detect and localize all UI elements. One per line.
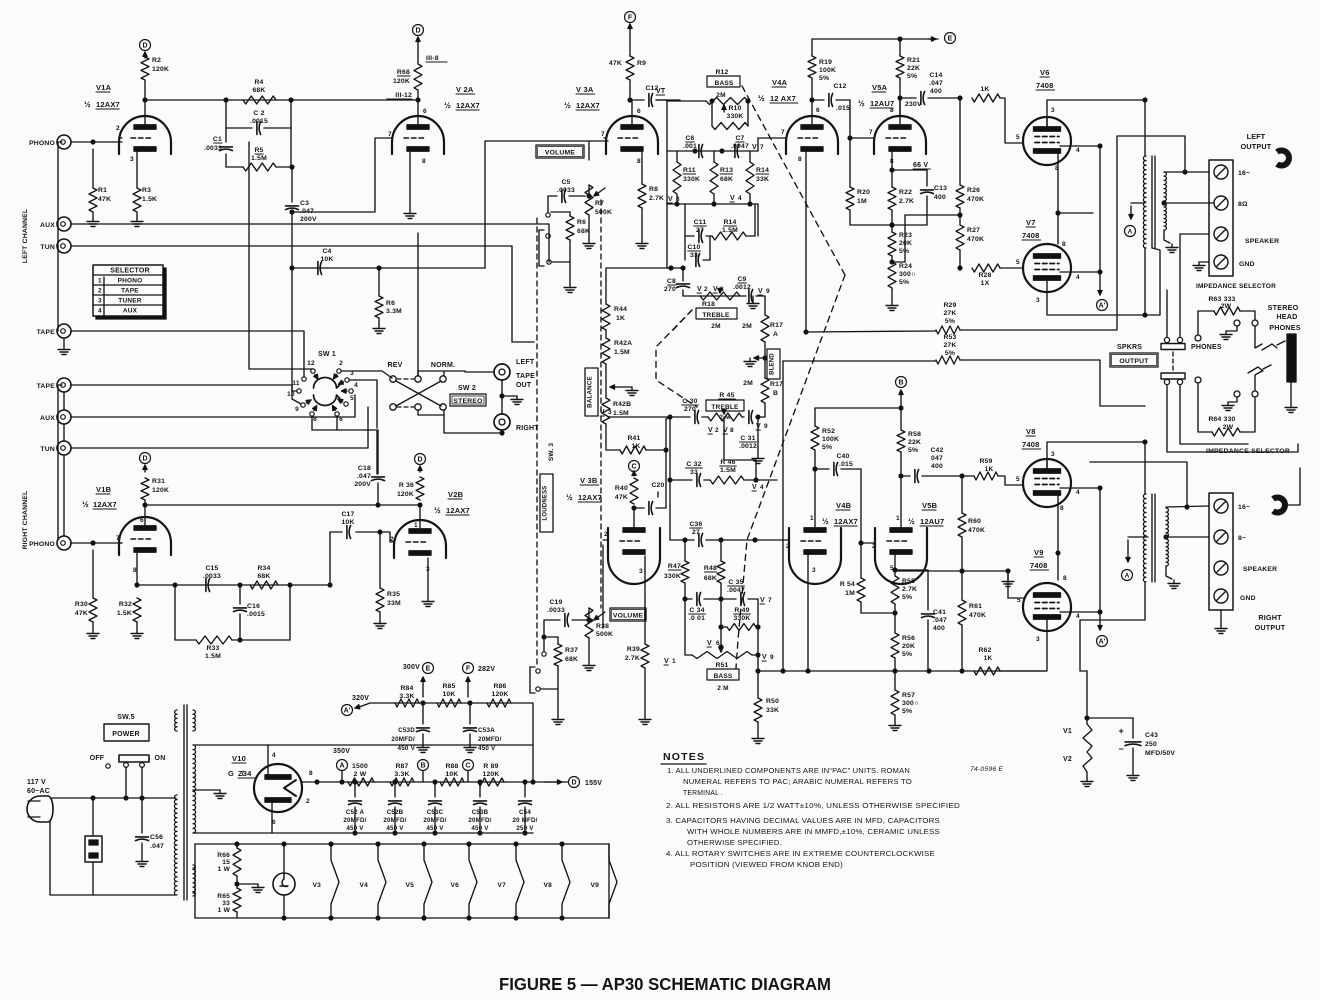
wire tape-left to SW1 c11 [71, 331, 304, 377]
wire V4A cathode [805, 151, 807, 332]
svg-text:R28: R28 [978, 272, 991, 279]
svg-text:4: 4 [98, 308, 102, 315]
wire tape-aux-tun right [63, 392, 65, 536]
svg-text:TUN: TUN [40, 446, 55, 453]
svg-text:C54: C54 [519, 809, 531, 816]
svg-text:+: + [1119, 726, 1124, 736]
capacitor C41 .047 400 [895, 570, 947, 671]
node V2 V8 ticks 2 [708, 427, 734, 434]
svg-text:6: 6 [637, 108, 641, 115]
ground R30 [87, 630, 99, 639]
resistor R66 15 1W [217, 842, 241, 884]
svg-text:VOLUME: VOLUME [613, 613, 644, 620]
terminal 8 right [1214, 530, 1246, 544]
svg-text:5: 5 [1016, 476, 1020, 483]
svg-text:C13: C13 [934, 185, 947, 192]
svg-text:R57: R57 [902, 692, 915, 699]
resistor R3 1.5K [133, 187, 157, 218]
label V10 GZ34 [228, 754, 257, 778]
svg-text:12AX7: 12AX7 [834, 517, 858, 526]
svg-text:1.5M: 1.5M [613, 410, 629, 417]
svg-text:1. ALL UNDERLINED COMPONENTS A: 1. ALL UNDERLINED COMPONENTS ARE IN“PAC”… [667, 768, 910, 775]
wire V1A grid [119, 137, 122, 139]
svg-text:120K: 120K [393, 78, 410, 85]
resistor R29 27K 5% [804, 136, 1185, 334]
capacitor C12 .015 [810, 83, 850, 112]
wire C40 to V5B grid [859, 469, 875, 545]
svg-text:V: V [760, 597, 765, 604]
node V4 tick [730, 195, 742, 202]
svg-text:1: 1 [896, 515, 900, 522]
svg-text:27: 27 [696, 227, 704, 234]
jack AUX right [40, 410, 71, 424]
svg-text:10K: 10K [320, 256, 333, 263]
svg-text:V4A: V4A [772, 78, 788, 87]
svg-text:1 W: 1 W [218, 866, 231, 873]
svg-text:3: 3 [812, 567, 816, 574]
svg-text:R7: R7 [595, 200, 604, 207]
dashed SW3 gang [537, 218, 555, 666]
svg-text:C 35: C 35 [728, 579, 743, 586]
svg-text:270: 270 [684, 406, 696, 413]
svg-text:C10: C10 [687, 244, 700, 251]
svg-text:G: G [228, 769, 234, 778]
svg-text:C 32: C 32 [686, 461, 701, 468]
svg-text:SW. 3: SW. 3 [548, 443, 555, 462]
svg-text:V10: V10 [232, 754, 246, 763]
resistor R84 3.3K [395, 685, 419, 707]
capacitor C4 10K [318, 248, 334, 275]
svg-text:3: 3 [98, 298, 102, 305]
label V4B [822, 501, 858, 526]
capacitor C35 .0047 [721, 579, 758, 606]
wire phono-left to V1A grid [71, 140, 122, 144]
label V9 [1030, 548, 1049, 570]
svg-text:SELECTOR: SELECTOR [110, 268, 150, 275]
svg-text:7408: 7408 [1022, 231, 1040, 240]
svg-text:IMPEDANCE SELECTOR: IMPEDANCE SELECTOR [1196, 283, 1276, 290]
label V2B [434, 490, 470, 515]
terminal speaker right [1214, 561, 1277, 575]
svg-text:8: 8 [313, 416, 317, 423]
wire V3B plate lead [632, 506, 636, 530]
label impedance selector right [1206, 448, 1290, 455]
svg-text:R11: R11 [683, 167, 696, 174]
svg-text:R87: R87 [395, 763, 408, 770]
svg-text:500K: 500K [596, 631, 613, 638]
svg-text:C43: C43 [1145, 732, 1158, 739]
heater bus rect [195, 844, 609, 918]
svg-text:NOTES: NOTES [663, 751, 705, 763]
svg-text:SPEAKER: SPEAKER [1245, 238, 1279, 245]
svg-text:.0 01: .0 01 [689, 615, 705, 622]
jack contacts upper [1220, 320, 1258, 340]
volume box right [610, 608, 646, 621]
svg-text:VOLUME: VOLUME [545, 150, 576, 157]
resistor R62 1K body [974, 667, 1046, 675]
wire V9 pin3 bottom [1046, 619, 1048, 671]
wire V7 pin4 [1060, 270, 1102, 274]
svg-text:C53C: C53C [427, 809, 444, 816]
svg-text:66 V: 66 V [913, 162, 928, 169]
svg-text:R4: R4 [254, 79, 263, 86]
wire cathode net y585 [137, 583, 332, 587]
svg-text:68K: 68K [257, 573, 270, 580]
svg-text:R30: R30 [75, 601, 88, 608]
svg-text:V5A: V5A [872, 83, 888, 92]
capacitor C42 047 400 [901, 447, 964, 483]
tube V1A triode [116, 116, 171, 163]
ground R1 [87, 218, 99, 227]
connector dashed link [1172, 352, 1174, 372]
svg-text:TERMINAL .: TERMINAL . [683, 790, 723, 797]
svg-text:V: V [752, 144, 757, 151]
svg-text:R85: R85 [442, 683, 455, 690]
svg-text:9: 9 [295, 406, 299, 413]
resistor R28 1K [958, 264, 1023, 287]
B+ node D V2B [415, 454, 426, 465]
resistor R5 1.5M [226, 128, 291, 171]
wire tun-left bus [71, 246, 534, 342]
switch SW2 stereo reverse [388, 233, 487, 415]
capacitor C31 .0012 [739, 411, 768, 451]
svg-text:7: 7 [388, 131, 392, 138]
svg-text:B: B [898, 380, 903, 387]
jack AUX left [40, 217, 71, 231]
svg-text:12AX7: 12AX7 [446, 506, 470, 515]
label V7 [1022, 218, 1041, 240]
ground R38 [583, 662, 595, 671]
capacitor C53C [423, 782, 446, 833]
heater V6 [451, 842, 477, 920]
tube V3B triode [604, 528, 660, 584]
svg-text:10K: 10K [442, 691, 455, 698]
wire R53 left drop [782, 361, 784, 671]
svg-text:V9: V9 [1034, 548, 1044, 557]
ground R24 [886, 288, 898, 311]
tube V1B triode [116, 517, 171, 574]
svg-text:C8: C8 [667, 278, 676, 285]
svg-text:½: ½ [822, 517, 829, 526]
wire tone row y151 [667, 149, 758, 153]
svg-text:450 V: 450 V [426, 825, 444, 832]
wire phone cutout right up [1286, 468, 1300, 505]
svg-text:12AX7: 12AX7 [96, 100, 120, 109]
wire C3 junction [290, 266, 294, 270]
resistor R17A 2M [742, 296, 783, 342]
label OFF ON [90, 755, 166, 768]
resistor R27 470K [956, 213, 984, 268]
svg-text:2: 2 [604, 531, 608, 538]
svg-text:1 W: 1 W [218, 907, 231, 914]
svg-text:8: 8 [637, 158, 641, 165]
svg-text:V8: V8 [544, 882, 553, 889]
svg-text:V7: V7 [1026, 218, 1036, 227]
resistor R14 33K [746, 151, 769, 204]
wire V4B cathode [807, 554, 809, 671]
svg-text:C: C [631, 464, 636, 471]
svg-text:R60: R60 [968, 518, 981, 525]
wire bass rail right [757, 599, 759, 655]
wire V2A plate lead [417, 100, 419, 127]
tube V9 beam 7408 [1017, 575, 1080, 643]
power transformer heater windings [193, 710, 195, 896]
svg-text:.0047: .0047 [731, 143, 749, 150]
node A' 320V [342, 695, 370, 716]
label V3A [564, 85, 600, 110]
resistor R9 47K [609, 24, 646, 100]
svg-text:C53B: C53B [472, 809, 489, 816]
node D 155V [545, 777, 602, 788]
svg-text:33: 33 [690, 252, 698, 259]
node C [463, 760, 474, 783]
svg-text:2M: 2M [743, 380, 753, 387]
svg-text:V: V [762, 654, 767, 661]
wire A tap right [1122, 537, 1149, 581]
capacitor C5 .0033 [548, 179, 585, 203]
wire V9 pin4 [1060, 610, 1102, 614]
svg-text:C6: C6 [685, 135, 694, 142]
svg-text:E: E [948, 36, 953, 43]
svg-text:V5: V5 [406, 882, 415, 889]
svg-text:R41: R41 [627, 435, 640, 442]
svg-text:2. ALL RESISTORS ARE 1/2 WATT±: 2. ALL RESISTORS ARE 1/2 WATT±10%, UNLES… [666, 803, 960, 810]
label SW5 POWER [104, 714, 149, 741]
svg-text:C9: C9 [737, 276, 746, 283]
svg-text:D: D [415, 28, 420, 35]
svg-text:2: 2 [339, 360, 343, 367]
svg-text:OUTPUT: OUTPUT [1241, 142, 1272, 151]
blend ground [744, 342, 767, 378]
svg-text:450 V: 450 V [398, 745, 416, 752]
svg-text:BLEND: BLEND [770, 353, 776, 375]
svg-text:REV: REV [388, 362, 403, 369]
potentiometer R38 500K [585, 608, 613, 662]
wire V2A cathode [404, 151, 416, 219]
svg-text:2.7K: 2.7K [625, 655, 640, 662]
svg-text:250 V: 250 V [516, 825, 534, 832]
svg-text:R32: R32 [119, 601, 132, 608]
svg-text:1.5M: 1.5M [614, 349, 630, 356]
svg-text:400: 400 [934, 194, 946, 201]
node V9 tick bass [762, 654, 774, 661]
svg-text:D: D [142, 456, 147, 463]
svg-text:200V: 200V [354, 481, 371, 488]
svg-text:V7: V7 [498, 882, 507, 889]
svg-text:POWER: POWER [112, 731, 139, 738]
label V2A [444, 85, 480, 110]
svg-text:R 54: R 54 [840, 581, 855, 588]
svg-text:20K: 20K [902, 643, 915, 650]
svg-text:1X: 1X [981, 280, 990, 287]
svg-text:20 MFD/: 20 MFD/ [512, 817, 537, 824]
wire SW2 to left tapeout [444, 371, 494, 372]
svg-text:230V: 230V [905, 101, 922, 108]
svg-text:A': A' [1099, 303, 1106, 310]
loudness contacts right [530, 652, 546, 693]
wire V5B plate lead [899, 474, 903, 530]
node V2 tick [697, 286, 708, 293]
resistor R39 2.7K [625, 644, 649, 716]
capacitor C40 .015 [813, 453, 861, 476]
svg-text:1: 1 [810, 515, 814, 522]
svg-text:R27: R27 [967, 227, 980, 234]
svg-text:R33: R33 [206, 645, 219, 652]
svg-text:1K: 1K [980, 86, 989, 93]
wire V7 pin3 bottom [1047, 248, 1160, 315]
wire plate bus y100 [145, 98, 420, 102]
svg-text:R84: R84 [400, 685, 413, 692]
wire V1A cathode [136, 151, 138, 188]
svg-text:2M: 2M [711, 323, 720, 330]
svg-text:.047: .047 [929, 80, 943, 87]
terminal strip right [1209, 493, 1233, 610]
resistor R36 120K [397, 466, 424, 500]
wire B+ E rail [812, 37, 938, 41]
svg-text:C53D: C53D [398, 727, 415, 734]
dashed gang bass [736, 86, 845, 668]
svg-text:22K: 22K [908, 439, 921, 446]
svg-text:33M: 33M [387, 600, 401, 607]
wire V2A grid lead [290, 138, 392, 214]
svg-text:27K: 27K [943, 310, 956, 317]
svg-text:3. CAPACITORS HAVING DECIMAL V: 3. CAPACITORS HAVING DECIMAL VALUES ARE … [666, 818, 940, 825]
jack TAPE right [37, 378, 71, 392]
svg-text:6: 6 [339, 416, 343, 423]
svg-text:4. ALL ROTARY SWITCHES ARE IN: 4. ALL ROTARY SWITCHES ARE IN EXTREME CO… [666, 851, 935, 858]
node V7 tick [752, 144, 764, 151]
resistor R6 68K loudness [551, 212, 590, 262]
ground R3 [131, 218, 143, 227]
wire cap bank bottom rail [272, 831, 533, 835]
svg-text:2: 2 [786, 543, 790, 550]
label V1A [84, 83, 120, 109]
blend box [767, 349, 780, 379]
resistor 1500 2W [348, 763, 374, 786]
svg-text:7408: 7408 [1036, 81, 1054, 90]
wire connector lower leads [1167, 385, 1298, 452]
svg-text:R64 330: R64 330 [1208, 416, 1235, 423]
label III-12 [387, 92, 412, 99]
resistor R2 120K [141, 52, 169, 100]
svg-text:C 34: C 34 [689, 607, 704, 614]
rotary switch SW1 [287, 351, 358, 423]
svg-text:8Ω: 8Ω [1238, 201, 1248, 208]
svg-text:.0012: .0012 [733, 284, 751, 291]
svg-text:V6: V6 [1040, 68, 1050, 77]
wire V9 pin5 [1008, 571, 1023, 598]
svg-text:OTHERWISE SPECIFIED.: OTHERWISE SPECIFIED. [687, 840, 782, 847]
svg-text:PHONES: PHONES [1269, 323, 1301, 332]
svg-text:V9: V9 [591, 882, 600, 889]
svg-text:5%: 5% [902, 708, 912, 715]
resistor R42A 1.5M [602, 330, 632, 364]
resistor R49 330K [719, 599, 760, 631]
svg-text:V8: V8 [1026, 427, 1036, 436]
resistor 1K coupling [958, 86, 1023, 143]
node V4 tick 2 [752, 484, 764, 491]
svg-text:C7: C7 [735, 135, 744, 142]
wire V10 pin8 [302, 780, 342, 784]
resistor R24 300 5% [888, 260, 916, 288]
svg-text:.001: .001 [683, 143, 697, 150]
switch SW5 toggle [119, 755, 149, 767]
svg-text:R5: R5 [254, 147, 263, 154]
wire secondary 8 tap right [1164, 535, 1209, 539]
jack LEFT tape out [494, 359, 535, 389]
svg-text:V: V [730, 195, 735, 202]
svg-text:R14: R14 [756, 167, 769, 174]
capacitor C3 .047 200V [286, 165, 317, 268]
svg-text:R 45: R 45 [719, 392, 734, 399]
svg-text:½: ½ [84, 100, 91, 109]
terminal gnd right [1214, 589, 1256, 603]
svg-text:5%: 5% [819, 75, 829, 82]
svg-text:3: 3 [1051, 451, 1055, 458]
wire V1B cathode [135, 552, 139, 587]
svg-text:120K: 120K [491, 691, 508, 698]
resistor R35 33M [376, 530, 401, 620]
svg-text:RIGHT CHANNEL: RIGHT CHANNEL [22, 491, 29, 550]
wire V6 pin8 to V7 [1056, 152, 1060, 244]
svg-text:7: 7 [601, 131, 605, 138]
svg-text:C16: C16 [247, 603, 260, 610]
wire C9 ground [0, 0, 1, 1]
svg-text:120K: 120K [152, 66, 169, 73]
svg-text:10K: 10K [341, 519, 354, 526]
wire V8 pin4 [1060, 486, 1102, 490]
node V1 tick bass [664, 658, 676, 665]
B+ rail lower [340, 780, 568, 784]
svg-text:330K: 330K [726, 113, 743, 120]
svg-text:R 36: R 36 [399, 482, 414, 489]
svg-text:1M: 1M [857, 198, 867, 205]
svg-text:4: 4 [738, 195, 742, 202]
svg-text:R53: R53 [943, 334, 956, 341]
svg-text:C14: C14 [929, 72, 942, 79]
svg-text:V: V [664, 658, 669, 665]
wire tone left drop [667, 204, 671, 268]
wire connector upper leads [1167, 234, 1209, 337]
svg-text:C4: C4 [322, 248, 331, 255]
B+ node F [625, 12, 636, 23]
svg-text:100K: 100K [822, 436, 839, 443]
capacitor C53B [468, 782, 491, 833]
svg-text:8: 8 [1063, 575, 1067, 582]
capacitor C52A [343, 782, 366, 833]
wire tape-right to SW1 c10 [71, 385, 297, 391]
svg-text:120K: 120K [152, 487, 169, 494]
loudness tap contacts upper [539, 213, 551, 266]
svg-text:1: 1 [414, 522, 418, 529]
terminal speaker left [1214, 227, 1279, 245]
svg-text:TUNER: TUNER [118, 298, 141, 305]
svg-text:½: ½ [444, 101, 451, 110]
svg-text:FIGURE 5 — AP30 SCHEMATIC DIAG: FIGURE 5 — AP30 SCHEMATIC DIAGRAM [499, 974, 831, 994]
svg-text:R3: R3 [142, 187, 151, 194]
svg-text:C20: C20 [651, 482, 664, 489]
wire phono-right to V1B grid [71, 541, 122, 545]
svg-text:R58: R58 [908, 431, 921, 438]
B+ node B mid [896, 377, 907, 396]
svg-text:V: V [668, 196, 673, 203]
svg-text:470K: 470K [967, 196, 984, 203]
svg-text:R14: R14 [723, 219, 736, 226]
svg-text:R61: R61 [969, 603, 982, 610]
wire V8 pin8 to V9 [1056, 494, 1060, 580]
svg-text:BALANCE: BALANCE [587, 376, 594, 408]
svg-text:R65: R65 [217, 893, 230, 900]
